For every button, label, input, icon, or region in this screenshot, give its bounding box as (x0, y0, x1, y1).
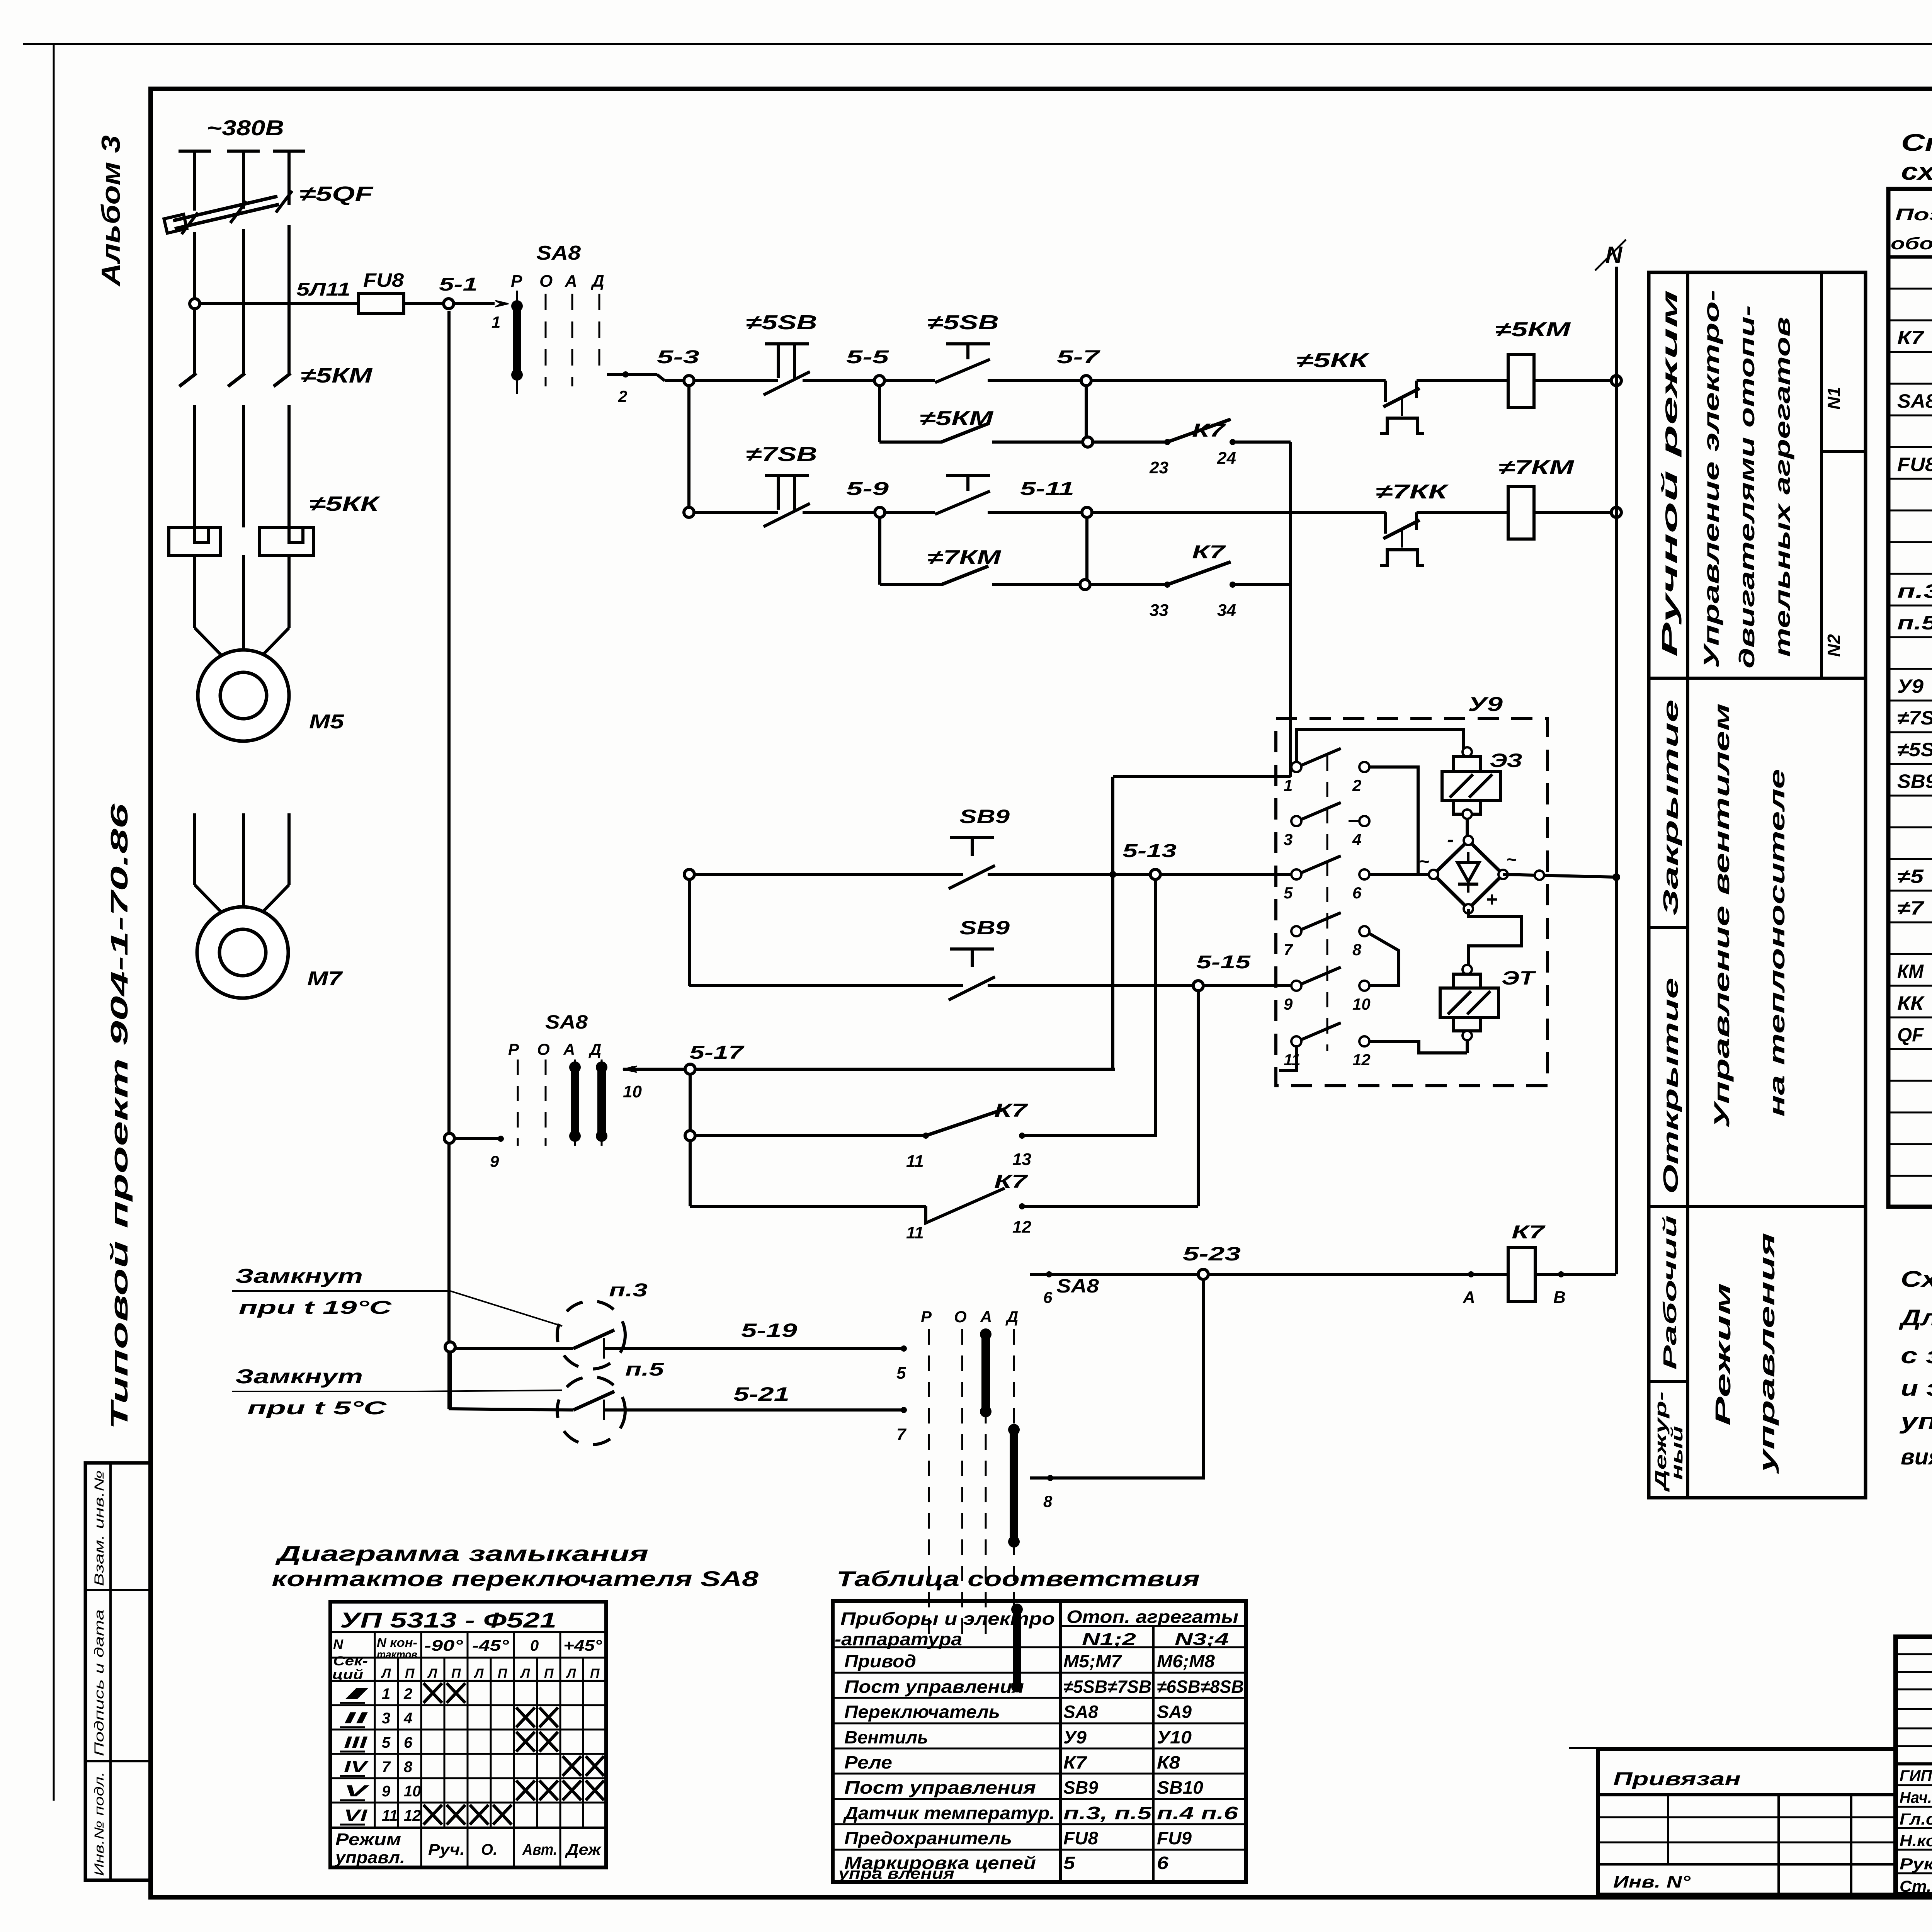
svg-text:SA8: SA8 (1056, 1275, 1099, 1297)
svg-text:А: А (980, 1308, 992, 1326)
node 5-9 (875, 507, 885, 517)
switch SA8-3 pole R dashed (928, 1329, 930, 1638)
U9 contact 5-6 (1291, 869, 1301, 879)
motor M7 leads (193, 813, 196, 885)
svg-text:5-23: 5-23 (1183, 1243, 1241, 1265)
svg-text:23: 23 (1149, 458, 1168, 477)
node rung D left (684, 507, 694, 517)
svg-text:10: 10 (404, 1783, 421, 1800)
junction N rung D (1611, 507, 1621, 517)
svg-text:обозн.: обозн. (1891, 234, 1932, 253)
svg-text:FU8: FU8 (1063, 1828, 1098, 1848)
svg-text:Режим: Режим (1711, 1283, 1735, 1426)
svg-text:II: II (344, 1709, 368, 1727)
wire to coil 5KM (1430, 379, 1508, 382)
motor M5 (198, 650, 289, 741)
svg-text:N2: N2 (1824, 634, 1844, 657)
svg-text:Диаграмма замыкания: Диаграмма замыкания (275, 1541, 648, 1566)
junction dot on 5-13 (1109, 871, 1116, 878)
svg-text:≠7: ≠7 (1897, 897, 1925, 919)
svg-text:Л: Л (473, 1666, 484, 1681)
node on bus for 5-19 (445, 1342, 455, 1352)
wire 5-1 to SA8 with arrow (454, 302, 495, 305)
mode table sub column N1 N2 (1820, 272, 1823, 678)
svg-text:Подпись и дата: Подпись и дата (92, 1609, 107, 1756)
svg-text:≠5SB≠7SB: ≠5SB≠7SB (1063, 1677, 1151, 1697)
svg-text:Приборы и электро: Приборы и электро (840, 1609, 1055, 1629)
svg-text:О: О (537, 1040, 550, 1058)
correspondence table (833, 1601, 1246, 1882)
wire bridge minus to ac2 node (1503, 874, 1616, 877)
svg-text:0: 0 (530, 1637, 539, 1654)
sensor p.3 contact on 5-19 (455, 1347, 573, 1350)
svg-text:N1;2: N1;2 (1082, 1630, 1136, 1649)
svg-text:2: 2 (618, 387, 627, 405)
contact K7 23-24 (1093, 440, 1167, 444)
svg-text:SB9: SB9 (1063, 1777, 1098, 1798)
node 5-7 (1081, 376, 1091, 386)
svg-text:управл.: управл. (335, 1848, 405, 1867)
svg-text:п.3;: п.3; (1897, 580, 1932, 602)
svg-text:Р: Р (921, 1308, 932, 1326)
svg-text:К7: К7 (1512, 1222, 1546, 1243)
wire jog (1113, 775, 1291, 778)
svg-text:Типовой проект 904-1-70.86: Типовой проект 904-1-70.86 (106, 803, 133, 1430)
svg-text:Инв.№ подл.: Инв.№ подл. (92, 1772, 107, 1876)
wire to 5-1 (404, 302, 444, 305)
svg-text:≠5КМ: ≠5КМ (1495, 318, 1571, 341)
svg-text:п.5: п.5 (1897, 612, 1932, 634)
svg-text:SB10: SB10 (1157, 1777, 1203, 1798)
svg-text:N кон-: N кон- (377, 1636, 417, 1650)
motor M7 (197, 907, 288, 998)
svg-text:N: N (333, 1636, 344, 1652)
svg-text:У9: У9 (1063, 1727, 1087, 1747)
svg-text:≠7КК: ≠7КК (1376, 481, 1449, 503)
svg-text:≠5QF: ≠5QF (299, 182, 374, 206)
rectifier bridge (1434, 840, 1503, 909)
svg-text:при t 19°С: при t 19°С (239, 1298, 392, 1318)
svg-text:≠5SB: ≠5SB (746, 311, 817, 334)
svg-text:VI: VI (344, 1806, 368, 1824)
svg-text:У9: У9 (1468, 693, 1503, 716)
spec table frame (1888, 189, 1932, 1207)
svg-text:Таблица соответствия: Таблица соответствия (837, 1566, 1200, 1591)
node 5-23 (1198, 1269, 1208, 1279)
svg-text:двигателями отопи-: двигателями отопи- (1735, 305, 1759, 668)
svg-text:5-5: 5-5 (846, 347, 889, 367)
svg-text:К7: К7 (994, 1172, 1028, 1192)
wire rung C with 5KM aux contact (879, 440, 939, 444)
svg-text:схемы управления.: схемы управления. (1901, 158, 1932, 185)
spec table row lines (1888, 288, 1932, 290)
svg-text:Поз.: Поз. (1895, 205, 1932, 224)
svg-text:Л: Л (520, 1666, 530, 1681)
svg-text:7: 7 (896, 1425, 907, 1444)
svg-text:SA8: SA8 (536, 242, 581, 264)
svg-text:≠7КМ: ≠7КМ (927, 546, 1002, 569)
svg-text:3: 3 (382, 1710, 390, 1727)
svg-text:5: 5 (896, 1364, 906, 1383)
svg-text:Замкнут: Замкнут (235, 1265, 363, 1287)
node on phase L1 (190, 299, 200, 309)
svg-text:10: 10 (623, 1082, 642, 1101)
U9 contact 1-2 (1291, 762, 1301, 772)
mode split rabochiy dezhurny (1649, 1380, 1688, 1383)
wire 5-17 down (689, 1074, 692, 1206)
node 9 on bus (444, 1133, 454, 1143)
svg-text:5: 5 (382, 1734, 391, 1751)
svg-text:К7: К7 (1063, 1752, 1088, 1772)
svg-text:А: А (565, 272, 577, 291)
svg-text:5-3: 5-3 (657, 347, 699, 367)
svg-text:К7: К7 (1192, 420, 1226, 441)
svg-text:Пост управления: Пост управления (844, 1777, 1036, 1798)
svg-text:Предохранитель: Предохранитель (844, 1828, 1012, 1848)
svg-text:ГИП: ГИП (1900, 1767, 1932, 1785)
svg-text:9: 9 (490, 1152, 499, 1170)
svg-text:7: 7 (1284, 940, 1293, 959)
svg-text:≠5КМ: ≠5КМ (920, 407, 994, 430)
wire 5-15 node down to SA8 11-12 rung (1197, 991, 1200, 1206)
mode table frame (1649, 272, 1866, 1498)
svg-text:8: 8 (404, 1759, 413, 1776)
svg-text:Открытие: Открытие (1659, 978, 1682, 1194)
svg-text:4: 4 (403, 1710, 412, 1727)
contactor 5KM main contacts (179, 373, 196, 386)
svg-text:-аппаратура: -аппаратура (835, 1629, 962, 1649)
motor M5 leads (193, 555, 196, 628)
svg-text:Рук. гр.: Рук. гр. (1900, 1855, 1932, 1873)
switch SA8-3 pole O dashed (961, 1329, 963, 1638)
svg-text:5-17: 5-17 (689, 1043, 745, 1063)
heater element EZ (1463, 747, 1472, 757)
svg-text:Гл.спец.: Гл.спец. (1900, 1810, 1932, 1828)
svg-text:Руч.: Руч. (428, 1841, 465, 1858)
wire 5-7 to 5KK (1091, 379, 1386, 382)
svg-text:Управление вентилем: Управление вентилем (1709, 703, 1734, 1128)
svg-text:Альбом 3: Альбом 3 (96, 135, 126, 287)
svg-text:Нач. отд.: Нач. отд. (1900, 1788, 1932, 1806)
wire 9 arrow (454, 1137, 498, 1140)
svg-text:ЭЗ: ЭЗ (1490, 750, 1522, 771)
switch SA8-3 pole D lower bar (1013, 1609, 1021, 1687)
svg-text:Рабочий: Рабочий (1660, 1215, 1680, 1370)
thermal relay 5KK heaters (169, 527, 220, 555)
svg-text:Л: Л (381, 1666, 391, 1681)
coil 5KM (1508, 355, 1534, 407)
svg-text:тельных агрегатов: тельных агрегатов (1770, 317, 1794, 657)
circuit breaker 5QF (175, 204, 279, 229)
svg-text:~: ~ (1419, 851, 1429, 871)
switch SA8-2 pole O dashed (545, 1060, 547, 1146)
svg-text:7: 7 (382, 1759, 391, 1776)
button 7SB NC (765, 474, 809, 477)
svg-text:О: О (539, 272, 553, 291)
svg-text:≠5КК: ≠5КК (1296, 349, 1370, 372)
thermal contact 7KK (1384, 512, 1387, 534)
svg-text:П: П (405, 1666, 415, 1681)
U9 gang dashed line (1327, 755, 1328, 1051)
svg-text:I: I (344, 1684, 370, 1702)
svg-text:-: - (1447, 828, 1454, 851)
svg-text:IV: IV (344, 1757, 369, 1776)
switch SA8 pole R with closed bar (516, 291, 518, 394)
svg-text:п.5: п.5 (625, 1359, 665, 1380)
svg-text:≠5: ≠5 (1897, 866, 1924, 887)
svg-text:9: 9 (1284, 995, 1293, 1013)
svg-text:V: V (344, 1782, 369, 1800)
svg-text:КК: КК (1897, 992, 1925, 1014)
svg-text:К7: К7 (994, 1100, 1028, 1121)
switch SA8 pole A dashed (571, 294, 573, 386)
phase lines middle (193, 232, 196, 374)
svg-text:1: 1 (1284, 776, 1293, 794)
svg-text:N3;4: N3;4 (1175, 1630, 1229, 1649)
svg-text:Привязан: Привязан (1613, 1769, 1741, 1789)
contact K7-SA8 11-12 rung (690, 1205, 926, 1208)
wire EZ to bridge (1466, 819, 1469, 840)
svg-text:5-19: 5-19 (741, 1320, 797, 1341)
node 5-17 (685, 1064, 695, 1074)
svg-text:5-15: 5-15 (1196, 952, 1251, 973)
button 5SB NO (884, 379, 935, 382)
heater element ET (1463, 965, 1472, 974)
svg-text:А: А (1463, 1288, 1475, 1307)
svg-text:Схема выполнена для ото: Схема выполнена для отопительных агрегат… (1901, 1267, 1932, 1292)
svg-text:УП 5313 - Ф521: УП 5313 - Ф521 (340, 1608, 556, 1632)
junction bridge output on N riser (1612, 873, 1620, 881)
wire to coil 7KM (1430, 511, 1508, 514)
svg-text:ций: ций (332, 1667, 363, 1682)
privyazan block (1598, 1749, 1896, 1895)
SA8 diagram data rows (330, 1704, 606, 1706)
svg-text:5-11: 5-11 (1020, 479, 1074, 499)
svg-text:К7: К7 (1192, 542, 1226, 563)
button SB9 on 5-13 (950, 836, 994, 839)
wire riser bridge to K7 (1615, 877, 1618, 1274)
switch SA8-2 pole D bar (601, 1060, 603, 1146)
svg-text:1: 1 (382, 1685, 390, 1702)
svg-text:на теплоносителе: на теплоносителе (1765, 769, 1789, 1117)
wire bus down to 5-15 (688, 879, 691, 986)
svg-text:≠7SB: ≠7SB (746, 443, 817, 466)
junction rung C (1083, 437, 1093, 447)
page left edge line (53, 44, 55, 1801)
U9 wire pin10 stub (1369, 934, 1399, 986)
title block upper grid rows (1896, 1653, 1932, 1655)
coil 7KM (1508, 486, 1534, 539)
svg-text:SA9: SA9 (1157, 1702, 1192, 1722)
node on bus for 5-13 (684, 869, 694, 879)
U9 contact 7-8 (1291, 926, 1301, 936)
svg-text:О.: О. (481, 1841, 497, 1858)
frame stub lines left of title block (1569, 1747, 1598, 1749)
svg-text:FU8: FU8 (363, 269, 404, 291)
button 5SB NC (765, 342, 809, 345)
thermal contact 5KK (1384, 381, 1387, 402)
svg-text:6: 6 (1352, 884, 1362, 902)
svg-text:SB9: SB9 (959, 917, 1010, 939)
svg-text:12: 12 (404, 1807, 421, 1824)
svg-text:Режим: Режим (335, 1830, 401, 1849)
svg-text:М5;М7: М5;М7 (1063, 1651, 1122, 1671)
svg-text:9: 9 (382, 1783, 391, 1800)
svg-text:КМ: КМ (1897, 961, 1924, 982)
U9 contact 9-10 (1291, 981, 1301, 991)
wire rung D (694, 511, 778, 514)
wire 5-3 down to rung D (687, 386, 690, 512)
U9 wire pin11 stub down (1279, 1046, 1296, 1070)
svg-text:SA8: SA8 (1063, 1702, 1098, 1722)
svg-text:П: П (498, 1666, 508, 1681)
wire coil 7KM to N bus (1534, 511, 1616, 514)
svg-text:управления: управления (1755, 1233, 1779, 1475)
svg-text:Замкнут: Замкнут (235, 1366, 363, 1388)
svg-text:6: 6 (1043, 1288, 1053, 1306)
node 5-3 (684, 376, 694, 386)
node 5-15 (1193, 981, 1203, 991)
svg-text:11: 11 (906, 1223, 924, 1242)
wire riser from rung C down to jog (1289, 442, 1292, 777)
svg-text:Р: Р (511, 272, 522, 291)
wire 5-9 down to rung E (878, 517, 881, 585)
wire vertical bus from node 5-1 down (447, 311, 451, 1409)
svg-text:Дежур-: Дежур- (1651, 1391, 1670, 1492)
svg-text:1: 1 (492, 313, 500, 331)
svg-text:5-7: 5-7 (1057, 347, 1101, 367)
svg-text:-45°: -45° (472, 1637, 509, 1654)
switch SA8-3 pole A bar (985, 1329, 987, 1638)
svg-text:≠5КК: ≠5КК (309, 492, 381, 515)
svg-text:Деж: Деж (565, 1841, 602, 1858)
SA8 diagram table (330, 1602, 606, 1867)
wire 5-5 down to rung C (878, 386, 881, 442)
svg-text:Д: Д (590, 272, 604, 291)
wire bus corner to 5-21 (450, 1352, 573, 1410)
svg-text:Для отопительных агрегатов: Для отопительных агрегатов 3; 4 аналогич… (1898, 1305, 1932, 1330)
svg-text:У9: У9 (1897, 675, 1923, 697)
svg-text:Р: Р (508, 1040, 519, 1058)
svg-text:тактов: тактов (377, 1648, 417, 1661)
node K7 rung 11-13 (685, 1131, 695, 1141)
svg-text:Д: Д (588, 1040, 601, 1058)
svg-text:5-9: 5-9 (846, 479, 889, 499)
svg-text:П: П (590, 1666, 600, 1681)
svg-text:управления согласно: управления согласно таблице соответст- (1899, 1409, 1932, 1434)
svg-text:12: 12 (1352, 1051, 1371, 1069)
svg-text:Л: Л (427, 1666, 437, 1681)
svg-text:≠7SB: ≠7SB (1897, 707, 1932, 729)
title block frame (1896, 1637, 1932, 1895)
svg-text:Привод: Привод (844, 1651, 916, 1671)
sensor p.5 circle (557, 1377, 625, 1445)
wire bridge plus to ET (1468, 909, 1522, 964)
svg-text:6: 6 (404, 1734, 413, 1751)
svg-text:Реле: Реле (844, 1752, 892, 1772)
wire rung B (665, 379, 778, 382)
svg-text:п.4 п.6: п.4 п.6 (1157, 1803, 1238, 1823)
svg-text:≠5КМ: ≠5КМ (301, 364, 372, 387)
svg-text:Вентиль: Вентиль (844, 1727, 928, 1747)
wire 5-11 down to rung E (1085, 517, 1088, 585)
svg-text:N1: N1 (1824, 387, 1844, 410)
svg-text:Н.контр: Н.контр (1900, 1832, 1932, 1850)
wire 5-11 to 7KK (1092, 511, 1386, 514)
svg-text:8: 8 (1352, 940, 1362, 959)
svg-text:≠6SB≠8SB: ≠6SB≠8SB (1157, 1677, 1244, 1697)
phase lines upper (193, 151, 196, 211)
svg-text:FU9: FU9 (1157, 1828, 1192, 1848)
svg-text:III: III (344, 1733, 368, 1751)
svg-text:10: 10 (1352, 995, 1371, 1013)
svg-text:11: 11 (906, 1152, 924, 1171)
sensor p.3 circle (557, 1301, 625, 1369)
svg-text:SB9: SB9 (959, 806, 1010, 827)
svg-text:ный: ный (1668, 1426, 1686, 1480)
svg-text:О: О (954, 1308, 967, 1326)
svg-text:Ручной режим: Ручной режим (1657, 290, 1682, 657)
svg-text:11: 11 (1284, 1051, 1301, 1069)
wire 5-15 (689, 984, 963, 987)
mode split zakrytie otkrytie (1649, 926, 1688, 929)
page top edge line (23, 43, 1932, 45)
wire 5-23 (1030, 1273, 1508, 1276)
svg-text:≠5SB: ≠5SB (927, 311, 999, 334)
button SB9 on 5-15 (950, 947, 994, 951)
svg-text:Управление электро-: Управление электро- (1699, 290, 1723, 668)
U9 wire pin2 to bridge ac1 (1369, 767, 1418, 874)
switch SA8-2 pole A bar (574, 1060, 576, 1146)
svg-text:У10: У10 (1157, 1727, 1192, 1747)
wire ET bottom (1466, 1040, 1469, 1053)
svg-text:Закрытие: Закрытие (1659, 699, 1682, 916)
junction rung E (1080, 580, 1090, 590)
svg-text:Д: Д (1005, 1308, 1018, 1326)
svg-text:33: 33 (1150, 601, 1168, 620)
wire rung E with 7KM aux contact (880, 583, 939, 586)
svg-text:М6;М8: М6;М8 (1157, 1651, 1215, 1671)
phase terminal ticks (179, 150, 211, 153)
svg-text:-90°: -90° (424, 1637, 463, 1654)
wire 5-13 (689, 873, 963, 876)
svg-text:QF: QF (1897, 1024, 1924, 1046)
svg-text:~380В: ~380В (207, 116, 284, 140)
switch SA8 pole O dashed (545, 294, 547, 386)
valve unit U9 dashed box (1276, 719, 1548, 1086)
svg-text:К7: К7 (1897, 327, 1925, 349)
svg-text:24: 24 (1217, 449, 1236, 468)
svg-text:контактов переключателя SA8: контактов переключателя SA8 (272, 1566, 759, 1591)
svg-text:8: 8 (1043, 1492, 1053, 1510)
svg-text:М7: М7 (307, 968, 343, 990)
wire riser jog down to 5-17 (1111, 777, 1114, 1069)
left stamp table (85, 1463, 150, 1880)
contact K7 33-34 (1090, 583, 1167, 586)
svg-text:ЭТ: ЭТ (1502, 967, 1537, 989)
svg-text:5-21: 5-21 (733, 1383, 789, 1405)
svg-text:и электроаппаратуры , индек: и электроаппаратуры , индекса маркировки… (1901, 1376, 1932, 1401)
sensor p.5 contact on 5-21 (573, 1391, 614, 1410)
junction N rung B (1611, 376, 1621, 386)
svg-text:5Л11: 5Л11 (296, 279, 350, 300)
svg-text:4: 4 (1352, 830, 1361, 849)
wire 5-13 node down to K7 11-13 rung (1154, 879, 1157, 1136)
bridge diode symbol (1458, 862, 1479, 882)
svg-text:п.3, п.5: п.3, п.5 (1063, 1803, 1152, 1823)
wire 5-17 (623, 1068, 1115, 1071)
svg-text:при t 5°С: при t 5°С (247, 1398, 387, 1418)
